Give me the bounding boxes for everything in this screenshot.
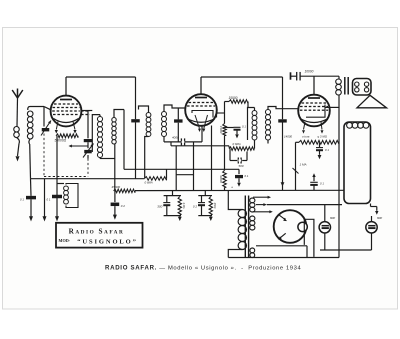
svg-text:0 2: 0 2	[193, 204, 198, 208]
svg-text:RADIO SAFAR. — Modello « Usign: RADIO SAFAR. — Modello « Usignolo ». - P…	[105, 265, 301, 272]
svg-text:4500: 4500	[213, 203, 217, 209]
svg-text:0 6MA: 0 6MA	[145, 180, 153, 184]
svg-text:15000: 15000	[229, 96, 238, 100]
svg-text:0 6MA: 0 6MA	[233, 142, 241, 146]
svg-text:+: +	[231, 185, 233, 189]
svg-text:8MF: 8MF	[377, 216, 383, 220]
svg-text:q 3 MΩ: q 3 MΩ	[318, 134, 328, 138]
svg-text:RADIO SAFAR: RADIO SAFAR	[69, 228, 125, 236]
svg-text:10000: 10000	[305, 69, 314, 73]
svg-text:0 1: 0 1	[20, 198, 24, 202]
svg-text:4000: 4000	[172, 135, 179, 139]
svg-text:50000Ω: 50000Ω	[55, 138, 67, 142]
svg-text:“USIGNOLO”: “USIGNOLO”	[77, 239, 138, 246]
svg-text:0 1: 0 1	[47, 198, 51, 202]
svg-text:300: 300	[157, 204, 162, 208]
svg-text:0 2: 0 2	[121, 204, 126, 208]
svg-text:0.1: 0.1	[245, 174, 249, 178]
svg-text:o tura: o tura	[302, 134, 310, 138]
svg-text:0 1: 0 1	[320, 181, 324, 185]
svg-text:0 1: 0 1	[325, 148, 329, 152]
svg-text:4 MA: 4 MA	[182, 202, 186, 208]
svg-text:8MF: 8MF	[330, 216, 336, 220]
svg-text:500: 500	[239, 164, 244, 168]
svg-text:0.1: 0.1	[242, 124, 246, 128]
svg-text:15000: 15000	[219, 126, 223, 134]
svg-text:14000: 14000	[284, 134, 292, 138]
svg-text:30000: 30000	[219, 175, 223, 183]
svg-text:1 MA: 1 MA	[300, 162, 307, 166]
svg-text:MOD·: MOD·	[59, 238, 71, 243]
svg-text:45000: 45000	[112, 185, 121, 189]
